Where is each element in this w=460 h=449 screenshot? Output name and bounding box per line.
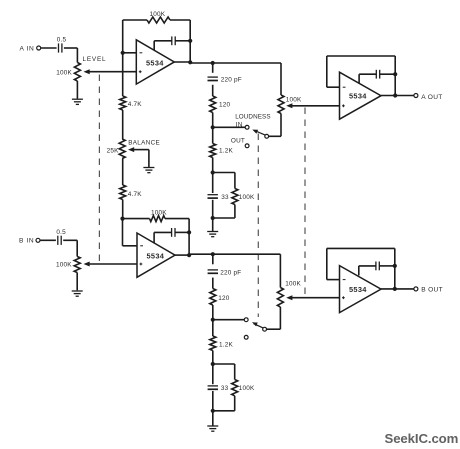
terminal B OUT [414, 287, 443, 294]
svg-text:4.7K: 4.7K [128, 191, 142, 198]
op-amp U1 5534 [136, 40, 174, 84]
wire [212, 411, 214, 426]
resistor 1.2K (A) [210, 144, 234, 158]
capacitor 220 pF (B) [208, 269, 242, 276]
svg-text:220 pF: 220 pF [221, 76, 242, 83]
wire [212, 158, 214, 173]
ground [72, 99, 83, 104]
switch contact IN (A) [235, 113, 270, 129]
dashed gang line (loudness switches) [257, 134, 259, 318]
dashed gang line (level pots) [98, 75, 100, 262]
svg-text:LEVEL: LEVEL [83, 56, 107, 63]
svg-text:33: 33 [221, 385, 229, 392]
ground [72, 291, 83, 296]
svg-text:100K: 100K [151, 210, 167, 217]
wire [381, 95, 414, 97]
resistor 100K (B shunt) [213, 364, 255, 411]
dashed gang line (volume pots) [304, 108, 306, 297]
svg-text:0.5: 0.5 [56, 229, 66, 236]
wire [267, 307, 281, 329]
potentiometer 25K BALANCE [107, 139, 160, 159]
wire [64, 48, 78, 63]
wire [212, 127, 214, 143]
wire [122, 110, 124, 139]
resistor 1.2K (B) [210, 336, 234, 351]
svg-text:220 pF: 220 pF [220, 269, 241, 276]
switch contact OUT (A) [231, 138, 249, 148]
wire [41, 47, 57, 49]
ground [207, 426, 218, 431]
resistor 4.7K (upper) [120, 53, 143, 110]
wiper wire (balance) [128, 147, 149, 167]
wire [212, 351, 214, 365]
wire [213, 126, 245, 128]
capacitor 33 (A) [208, 173, 230, 219]
node U3 out [187, 253, 191, 257]
wire [212, 278, 214, 289]
wire [189, 20, 191, 62]
svg-text:0.5: 0.5 [57, 36, 67, 43]
svg-text:100K: 100K [285, 280, 301, 287]
wire [76, 81, 78, 99]
node [211, 61, 215, 65]
wire [280, 63, 282, 95]
wire [213, 319, 244, 321]
wire [212, 320, 214, 336]
node U3 -in [120, 217, 124, 221]
svg-text:BALANCE: BALANCE [128, 139, 160, 146]
svg-text:IN: IN [236, 122, 243, 129]
wire [212, 113, 214, 128]
wire [122, 20, 124, 53]
ground [143, 168, 154, 173]
resistor 100K (U3 feedback) [123, 210, 190, 222]
wire [122, 200, 124, 219]
node U1 out [188, 60, 192, 64]
wire [76, 273, 78, 291]
node U2 out [393, 93, 397, 97]
terminal A OUT [414, 94, 443, 102]
wire [174, 62, 281, 63]
svg-text:100K: 100K [56, 262, 72, 269]
switch contact OUT (B) [244, 335, 248, 339]
potentiometer 100K LEVEL (B) [56, 257, 80, 273]
wire [269, 114, 281, 137]
svg-text:33: 33 [221, 194, 229, 201]
wire (U2 feedback loop) [327, 56, 395, 96]
svg-text:5534: 5534 [147, 251, 165, 260]
wire [188, 219, 190, 255]
svg-text:A OUT: A OUT [421, 94, 442, 101]
resistor 100K (A shunt) [213, 173, 255, 219]
svg-text:LOUDNESS: LOUDNESS [235, 113, 270, 120]
node [211, 409, 215, 413]
svg-text:5534: 5534 [146, 58, 164, 67]
svg-text:1.2K: 1.2K [219, 341, 233, 348]
terminal A IN [20, 45, 41, 52]
terminal B IN [19, 238, 40, 245]
svg-text:1.2K: 1.2K [219, 148, 233, 155]
switch pole (B) [252, 322, 267, 331]
svg-text:120: 120 [218, 295, 230, 302]
svg-text:B IN: B IN [19, 238, 34, 245]
node [211, 362, 215, 366]
potentiometer 100K (B volume) [277, 280, 301, 307]
wire [212, 218, 214, 231]
svg-text:100K: 100K [286, 97, 302, 104]
wire [123, 219, 138, 246]
svg-text:120: 120 [219, 102, 231, 109]
capacitor 0.5 (B input) [56, 229, 66, 245]
op-amp U4 5534 [340, 266, 382, 313]
svg-text:100K: 100K [150, 11, 166, 18]
capacitor 0.5 (A input) [57, 36, 67, 52]
wiper wire (B volume to U4) [286, 295, 339, 300]
node [211, 216, 215, 220]
svg-text:5534: 5534 [349, 285, 367, 294]
node [211, 170, 215, 174]
capacitor (U3 comp) [154, 228, 191, 243]
node U4 out [393, 287, 397, 291]
node [211, 318, 215, 322]
node U1 -in [121, 51, 137, 55]
svg-text:100K: 100K [239, 194, 255, 201]
wire [279, 254, 281, 287]
svg-text:SeekIC.com: SeekIC.com [385, 431, 459, 446]
wiper wire (A volume to U2) [286, 103, 339, 108]
resistor 120 (B) [210, 289, 230, 306]
wire (U4 feedback loop) [327, 248, 395, 289]
capacitor (U4 comp) [359, 262, 397, 276]
wire [175, 253, 281, 256]
ground [207, 232, 218, 237]
svg-text:25K: 25K [107, 147, 120, 154]
wire [212, 85, 214, 96]
capacitor 220 pF (A) [208, 76, 242, 83]
resistor 100K (U1 feedback) [123, 11, 191, 23]
switch pole (A) [252, 130, 268, 139]
wire [212, 254, 214, 264]
wire [40, 239, 56, 241]
svg-text:100K: 100K [239, 385, 255, 392]
capacitor (U2 comp) [359, 70, 397, 84]
watermark SeekIC.com [385, 431, 459, 446]
svg-text:B OUT: B OUT [421, 287, 443, 294]
op-amp U3 5534 [137, 233, 175, 277]
svg-text:5534: 5534 [349, 92, 367, 101]
op-amp U2 5534 [340, 72, 382, 119]
potentiometer 100K (A volume) [278, 95, 302, 114]
wiper wire (level B to U3 +in) [84, 262, 138, 267]
svg-text:A IN: A IN [20, 45, 35, 52]
potentiometer 100K LEVEL (A) [56, 56, 106, 81]
node [211, 252, 215, 256]
wire [63, 240, 77, 256]
svg-text:4.7K: 4.7K [128, 101, 142, 108]
wire [212, 305, 214, 320]
node [211, 125, 215, 129]
capacitor (U1 comp) [154, 36, 192, 50]
resistor 120 (A) [210, 96, 231, 113]
resistor 4.7K (lower) [120, 159, 143, 200]
capacitor 33 (B) [208, 364, 229, 411]
switch contact IN (B) [244, 318, 248, 322]
wiper wire (level A to U1 +in) [84, 69, 137, 74]
wire [381, 288, 414, 290]
svg-text:100K: 100K [56, 69, 72, 76]
svg-text:OUT: OUT [231, 138, 245, 145]
wire [212, 63, 214, 73]
